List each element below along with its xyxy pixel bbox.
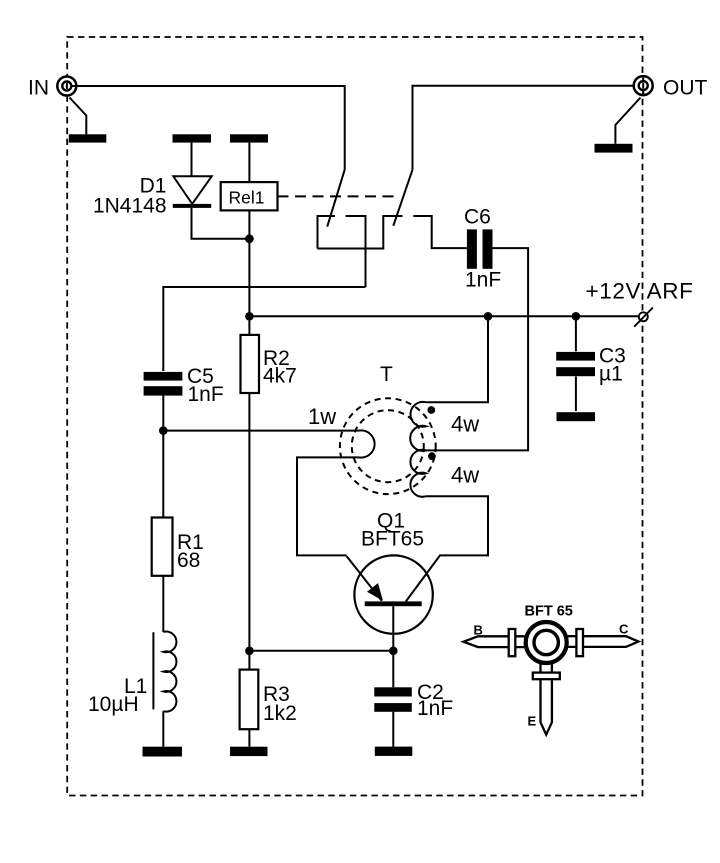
wire rail to winding top (426, 316, 488, 402)
ground (OUT) (595, 144, 633, 153)
svg-text:1w: 1w (308, 404, 336, 429)
svg-text:4k7: 4k7 (263, 365, 297, 388)
phase dot lower (428, 452, 436, 460)
capacitor C3 (556, 316, 595, 411)
winding 4w lower (410, 450, 426, 497)
flange C (576, 629, 583, 656)
winding 4w upper (410, 402, 426, 451)
ground (D1) (173, 134, 212, 142)
wire C6 to transformer tap (426, 248, 528, 450)
svg-text:10µH: 10µH (88, 693, 139, 716)
svg-text:T: T (380, 363, 393, 386)
svg-text:C: C (619, 622, 629, 637)
wire base node to R3 (249, 650, 393, 652)
svg-text:4w: 4w (451, 463, 479, 488)
flange B (509, 629, 516, 656)
resistor R1 (152, 431, 173, 632)
svg-text:OUT: OUT (663, 77, 708, 100)
lead E (541, 664, 552, 735)
capacitor C2 (374, 651, 412, 747)
wire node to 1w winding (163, 430, 358, 432)
wire IN shield to ground (70, 98, 87, 135)
node rail/R2 (245, 312, 254, 321)
svg-text:Rel1: Rel1 (229, 188, 265, 208)
wire IN to switch S1 (71, 86, 344, 170)
svg-text:µ1: µ1 (599, 363, 623, 386)
svg-text:4w: 4w (451, 412, 479, 437)
svg-text:BFT 65: BFT 65 (525, 604, 573, 620)
svg-text:68: 68 (177, 549, 200, 572)
svg-text:1nF: 1nF (188, 383, 224, 406)
node D1/Rel1 junction (245, 234, 254, 243)
wire OUT shield to ground (615, 98, 640, 144)
svg-text:BFT65: BFT65 (361, 528, 424, 551)
svg-text:+12V ARF: +12V ARF (586, 279, 694, 304)
ground (C2) (375, 747, 413, 756)
svg-text:1k2: 1k2 (263, 702, 297, 725)
wire S1 to C5 column (163, 287, 365, 371)
BFT65 package drawing (464, 622, 639, 735)
svg-text:1nF: 1nF (465, 269, 501, 292)
ground (L1) (143, 747, 183, 757)
resistor R3 (240, 651, 259, 747)
wire ground to Rel1 (248, 143, 250, 183)
svg-text:C6: C6 (464, 206, 491, 229)
svg-text:B: B (474, 623, 483, 638)
node rail/transformer (484, 312, 493, 321)
relay switch arm S2 (393, 170, 412, 226)
svg-text:IN: IN (28, 77, 49, 100)
svg-text:1N4148: 1N4148 (93, 195, 167, 218)
svg-text:1nF: 1nF (417, 697, 453, 720)
S1 contact left (318, 216, 336, 249)
wire D1 cathode to node (192, 208, 250, 239)
wire winding bottom to collector (406, 496, 488, 601)
wire Rel1 to node (248, 210, 250, 316)
ground (IN) (69, 134, 107, 142)
wire S1 bottom to S2 left contact (318, 216, 403, 249)
dashed enclosure border (67, 37, 642, 796)
node base/R3/C2 (389, 647, 398, 656)
capacitor C5 (144, 372, 183, 431)
+12V terminal (634, 308, 653, 327)
node C5/R1/1w (159, 426, 168, 435)
relay switch arm S1 (327, 170, 345, 227)
capacitor C6 (467, 229, 493, 268)
ground (Rel1) (230, 134, 268, 142)
winding 1w (359, 430, 375, 457)
svg-text:E: E (528, 714, 537, 729)
diode D1 (173, 176, 212, 208)
+12V rail (249, 315, 638, 317)
node rail/C3 (572, 312, 581, 321)
S1 contact right (346, 216, 366, 287)
transistor Q1 (347, 555, 433, 650)
IN connector J1 (57, 77, 76, 96)
wire ground to D1 anode (191, 143, 193, 177)
lead C (568, 636, 639, 647)
lead B (464, 636, 525, 647)
inductor L1 (153, 632, 176, 747)
ground (C3) (557, 412, 596, 421)
transformer T core (340, 398, 436, 494)
phase dot upper (427, 406, 435, 414)
ground (R3) (230, 747, 268, 756)
resistor R2 (241, 316, 260, 651)
relay coil Rel1 (221, 182, 278, 210)
S2 contact right to C6 (413, 216, 467, 248)
node R2/R3 (245, 647, 254, 656)
wire 1w to emitter (297, 457, 359, 555)
dashed actuator link (278, 195, 400, 197)
package body (526, 622, 567, 663)
wire switch S2 to OUT (413, 86, 640, 170)
flange E (533, 673, 560, 680)
OUT connector J2 (634, 76, 653, 95)
